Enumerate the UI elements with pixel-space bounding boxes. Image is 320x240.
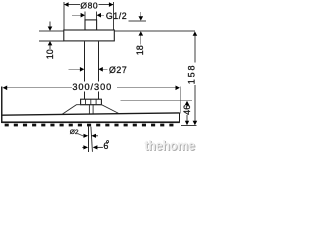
flange plate bbox=[64, 30, 115, 41]
neck lines inside cone bbox=[88, 105, 90, 114]
spray nozzles bbox=[5, 124, 174, 127]
flange bottom stub left bbox=[39, 40, 64, 42]
dim O80 extension line right bbox=[113, 2, 115, 30]
arrow O80 right bbox=[109, 2, 113, 7]
arrow 6deg left (points right) bbox=[83, 145, 88, 149]
arrow O27 left (points right) bbox=[80, 67, 84, 72]
arrow O2 left (points right) bbox=[84, 134, 89, 138]
head right edge bbox=[178, 113, 180, 123]
nozzle detail right slanted line bbox=[82, 127, 103, 152]
arrow 300 left bbox=[3, 86, 8, 91]
dim 300/300 dimension line bbox=[3, 87, 72, 89]
cone top and slants bbox=[62, 105, 119, 115]
dim 18 lower arrow shaft bbox=[140, 35, 142, 44]
svg-text:18: 18 bbox=[135, 45, 145, 55]
svg-text:thehome: thehome bbox=[144, 137, 195, 153]
dim 10 upper arrow shaft bbox=[49, 22, 51, 27]
arrow dim46 down bbox=[185, 121, 189, 126]
head left edge and 300 extension bbox=[1, 86, 3, 123]
arrow dim158 up bbox=[193, 31, 198, 35]
raised top line of head right part bbox=[120, 99, 192, 101]
svg-text:Ø27: Ø27 bbox=[109, 65, 127, 75]
dim 6deg right shaft bbox=[97, 146, 103, 148]
ceiling line left bbox=[39, 30, 64, 32]
ceiling line right bbox=[114, 30, 195, 32]
pipe left line bbox=[83, 41, 85, 81]
svg-text:10: 10 bbox=[45, 49, 55, 59]
dim 18 upper arrow shaft bbox=[140, 12, 142, 16]
dim 10 lower arrow shaft bbox=[49, 45, 51, 49]
nut facet lines bbox=[85, 99, 87, 104]
thread extension line left bbox=[84, 12, 86, 20]
dim 158 line upper bbox=[194, 36, 196, 63]
head top line bbox=[2, 113, 180, 115]
dim O80 dimension line bbox=[64, 4, 79, 6]
dim G1/2 right shaft bbox=[101, 14, 104, 16]
arrow dim10 up bbox=[48, 41, 53, 45]
head bottom thick band bbox=[1, 121, 179, 123]
union nut block bbox=[81, 99, 102, 105]
arrow dim10 down bbox=[48, 27, 53, 31]
head right extension line bbox=[180, 86, 182, 113]
dim O2 right shaft bbox=[95, 135, 98, 137]
bottom extension line right bbox=[181, 124, 197, 126]
dim O27 right shaft bbox=[103, 68, 108, 70]
arrow O2 right (points left) bbox=[91, 134, 96, 138]
svg-text:G1/2: G1/2 bbox=[106, 11, 127, 21]
arrow dim18 down bbox=[139, 16, 144, 20]
arrowheads bbox=[3, 2, 198, 149]
svg-text:46: 46 bbox=[182, 105, 192, 115]
pipe right line bbox=[97, 41, 99, 81]
arrow O80 left bbox=[64, 2, 68, 7]
dim O2 leader polyline bbox=[78, 134, 85, 136]
thread square G1/2 bbox=[85, 20, 97, 30]
svg-text:Ø80: Ø80 bbox=[80, 1, 98, 11]
svg-text:158: 158 bbox=[186, 64, 196, 85]
arrow 6deg right (points left) bbox=[93, 145, 98, 149]
dim 6deg left shaft bbox=[82, 146, 84, 148]
arrow G1/2 left (points right) bbox=[81, 13, 85, 18]
svg-text:300/300: 300/300 bbox=[72, 82, 112, 92]
arrow dim46 up bbox=[185, 101, 190, 106]
dim G1/2 left shaft bbox=[72, 14, 81, 16]
arrow O27 right (points left) bbox=[98, 67, 102, 72]
thread extension line right bbox=[96, 12, 98, 20]
svg-text:Ø2: Ø2 bbox=[70, 129, 79, 136]
dim 46 line lower bbox=[186, 115, 188, 121]
arrow 300 right bbox=[176, 86, 180, 91]
arrow dim158 down bbox=[193, 121, 198, 125]
degree circle of 6deg bbox=[107, 141, 109, 143]
dim O27 left shaft bbox=[69, 68, 81, 70]
arrow dim18 up bbox=[139, 31, 144, 35]
arrow G1/2 right (points left) bbox=[97, 13, 101, 18]
thread top extension line right bbox=[129, 20, 147, 22]
dim O80 extension line left bbox=[63, 2, 65, 30]
dim 158 line lower bbox=[194, 85, 196, 121]
